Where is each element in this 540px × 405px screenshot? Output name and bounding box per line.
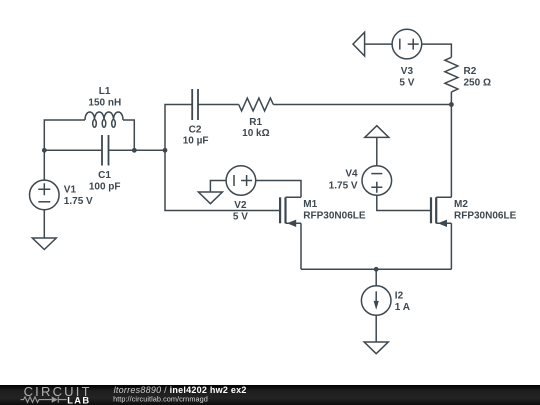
wire V3 to R2 top: [422, 44, 452, 57]
wire V2 to M1 drain: [256, 181, 301, 198]
logo schematic line: diode: [52, 397, 58, 403]
svg-text:M2: M2: [454, 199, 468, 210]
voltage source V2: [226, 166, 256, 196]
wire R1 to node B: [273, 104, 451, 106]
svg-text:1.75 V: 1.75 V: [329, 181, 358, 192]
svg-text:10 kΩ: 10 kΩ: [242, 128, 269, 139]
svg-text:C2: C2: [189, 124, 202, 135]
svg-text:100 pF: 100 pF: [89, 181, 121, 192]
svg-text:RFP30N06LE: RFP30N06LE: [303, 210, 366, 221]
voltage source V4: [362, 166, 392, 196]
capacitor C2: [192, 89, 198, 120]
svg-text:V3: V3: [401, 66, 414, 77]
junction dot (rail/I2): [374, 267, 379, 272]
svg-text:RFP30N06LE: RFP30N06LE: [454, 210, 517, 221]
wire gate branch to M1: [165, 150, 280, 210]
wire R2 bottom to node B: [450, 92, 452, 105]
ground (above V4, rotated up): [365, 126, 389, 138]
junction dot (C2/gate branch): [163, 148, 168, 153]
wire ground to V3: [365, 43, 393, 45]
ground (left of V2): [198, 192, 222, 204]
wire M2 source down: [450, 223, 452, 269]
svg-text:I2: I2: [395, 291, 404, 302]
svg-text:5 V: 5 V: [233, 212, 248, 223]
wire node row y=150: [44, 149, 165, 151]
inductor L1: [85, 112, 123, 127]
wire V1 top: [43, 150, 45, 180]
svg-text:L1: L1: [99, 86, 111, 97]
wire up branch to C2: [165, 105, 192, 151]
wire C2 to R1: [198, 104, 239, 106]
transistor M1: [280, 197, 301, 227]
voltage source V3: [392, 29, 422, 59]
svg-text:1.75 V: 1.75 V: [64, 196, 93, 207]
svg-text:C1: C1: [98, 170, 111, 181]
wire V4 to M2 gate: [377, 195, 431, 210]
svg-text:150 nH: 150 nH: [88, 98, 121, 109]
ground (left of V3, rotated): [353, 32, 365, 56]
svg-text:V4: V4: [345, 169, 358, 180]
logo schematic line: resistor zigzag: [21, 397, 52, 403]
node B junction dot (R1/R2/M2 drain): [449, 102, 454, 107]
wire bottom rail: [301, 268, 451, 270]
wire V1 bottom: [43, 210, 45, 238]
svg-text:10 µF: 10 µF: [183, 136, 209, 147]
wire V2 left to ground: [210, 181, 226, 193]
svg-text:5 V: 5 V: [399, 77, 414, 88]
wire L1 left leg: [44, 120, 85, 150]
wire V4 top: [376, 137, 378, 165]
svg-text:LAB: LAB: [67, 396, 90, 405]
resistor R1: [239, 98, 274, 111]
svg-text:http://circuitlab.com/crnmagd: http://circuitlab.com/crnmagd: [113, 394, 208, 403]
wire M2 drain vertical: [450, 105, 452, 198]
ground (below I2): [364, 342, 388, 354]
svg-text:V1: V1: [64, 184, 77, 195]
voltage source V1: [30, 180, 60, 210]
node A junction dot (V1/L1/C1): [42, 148, 47, 153]
svg-text:1 A: 1 A: [395, 302, 410, 313]
junction dot (L1 right leg): [132, 148, 137, 153]
wire I2 bottom: [375, 315, 377, 342]
wire rail to I2: [375, 269, 377, 285]
wire L1 right leg: [123, 120, 134, 150]
svg-text:R2: R2: [464, 66, 477, 77]
footer bar: [0, 385, 540, 405]
svg-text:V2: V2: [234, 200, 247, 211]
ground (below V1): [32, 238, 56, 250]
capacitor C1: [102, 135, 109, 166]
svg-text:M1: M1: [303, 199, 317, 210]
svg-text:250 Ω: 250 Ω: [464, 77, 491, 88]
resistor R2: [445, 57, 458, 92]
wire M1 source down: [300, 223, 302, 269]
transistor M2: [431, 197, 451, 227]
svg-text:R1: R1: [249, 117, 262, 128]
current source I2: [361, 286, 391, 316]
